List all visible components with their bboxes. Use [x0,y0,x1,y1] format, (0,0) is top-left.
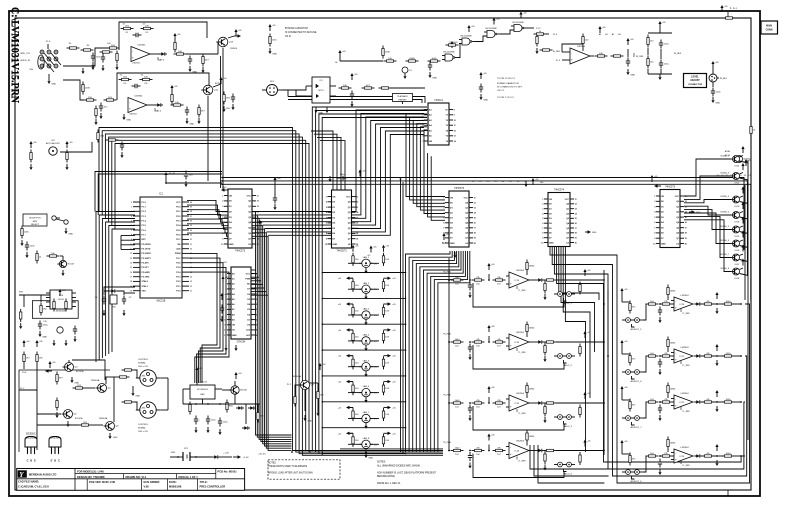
svg-text:-: - [132,49,133,53]
svg-text:CH1 = ON: CH1 = ON [138,366,148,368]
svg-text:+: + [129,106,131,110]
svg-text:6: 6 [326,223,327,225]
nand gate G1 [445,54,453,61]
svg-text:1: 1 [422,109,423,111]
svg-text:19: 19 [685,238,687,240]
svg-text:BC860_4: BC860_4 [721,212,730,214]
svg-text:TL_REF: TL_REF [518,413,526,415]
wire opto [282,86,306,90]
svg-text:DESIGN NO: TSM.M88: DESIGN NO: TSM.M88 [77,475,105,479]
svg-text:LM2904: LM2904 [681,447,690,449]
svg-text:16: 16 [256,284,258,286]
svg-text:6: 6 [222,222,223,224]
stage2 feedback loop [117,73,209,100]
driver cluster [36,251,38,254]
op-amp IC10a [131,47,150,62]
svg-text:9: 9 [654,238,655,240]
svg-text:3: 3 [422,120,423,122]
svg-text:IC 78L05: IC 78L05 [198,382,208,384]
svg-text:1000: 1000 [726,301,732,303]
svg-text:12: 12 [224,330,226,332]
svg-text:LED3: LED3 [735,206,740,208]
svg-text:16: 16 [356,223,358,225]
svg-text:12: 12 [575,204,577,206]
resistor R22 [140,79,143,81]
svg-text:6: 6 [654,222,655,224]
res R19 [95,106,97,109]
svg-text:-: - [510,275,511,279]
svg-text:7: 7 [225,304,226,306]
svg-text:GND: GND [189,123,194,125]
vcc bl1 [23,343,25,347]
svg-text:27: 27 [190,263,192,265]
svg-text:TL_REF: TL_REF [518,290,526,292]
svg-text:MC34064P: MC34064P [56,311,67,313]
wire bottom bus extra [340,448,443,450]
svg-text:1M00: 1M00 [529,328,535,330]
svg-text:11: 11 [257,195,259,197]
svg-text:TL_REF: TL_REF [682,465,690,467]
svg-text:100n: 100n [340,174,346,176]
wire reset [19,295,24,307]
cap reset [39,321,41,325]
midi select box [23,214,47,226]
svg-text:C:\CAD\LVM, CY:01..SCH: C:\CAD\LVM, CY:01..SCH [18,485,49,489]
svg-text:10K: 10K [385,259,389,261]
res reg2 [257,410,259,413]
svg-text:12: 12 [257,201,259,203]
svg-text:LM2904: LM2904 [129,114,137,116]
wire bus IC6 to drivers [684,159,731,196]
svg-text:PGM: PGM [245,278,250,280]
svg-text:M08/01/98: M08/01/98 [169,484,182,488]
vcc g0 [339,53,341,57]
wire bus IC3 top stubs [311,131,333,190]
gnd opto [315,107,317,110]
svg-text:19: 19 [257,238,259,240]
resistor R14 [100,51,103,53]
svg-text:LAB_8: LAB_8 [363,437,370,440]
driver transistor Q26 [733,254,740,261]
svg-text:1M00: 1M00 [670,443,676,445]
svg-text:B: B [30,460,32,463]
svg-text:GND: GND [318,112,323,114]
svg-text:BC860_7: BC860_7 [721,254,730,256]
wire oa2 out [147,104,156,106]
svg-text:4: 4 [131,216,132,218]
cap reg1 [195,416,197,420]
svg-text:10K: 10K [385,414,389,416]
wire col2 rail [603,270,605,455]
svg-text:11: 11 [685,196,687,198]
svg-text:1: 1 [326,196,327,198]
sel transistors [52,216,56,220]
svg-text:LED6: LED6 [735,250,740,252]
res reset [40,303,42,306]
svg-text:D0039 Rev 1, DEC 11: D0039 Rev 1, DEC 11 [377,482,401,485]
svg-text:+: + [510,343,512,347]
svg-text:TL_REF: TL_REF [518,352,526,354]
driver transistor Q20 [733,156,740,163]
svg-text:BC550C: BC550C [26,433,36,436]
pot row LAB_3 [350,303,354,305]
svg-text:6: 6 [131,225,132,227]
svg-text:+: + [510,452,512,456]
svg-text:6: 6 [443,223,444,225]
diode reg2 [248,407,250,409]
svg-text:6: 6 [422,136,423,138]
svg-text:10K: 10K [385,311,389,313]
svg-text:6: 6 [225,299,226,301]
svg-text:13: 13 [454,136,456,138]
svg-text:GN: GN [429,141,433,143]
svg-text:ADJ2_3: ADJ2_3 [564,425,573,428]
svg-text:7: 7 [131,230,132,232]
svg-text:24: 24 [190,277,192,279]
svg-text:17: 17 [256,289,258,291]
res bl4 [73,387,76,389]
svg-text:-: - [571,51,572,55]
svg-text:CONTROL: CONTROL [138,359,149,361]
svg-text:11: 11 [224,325,226,327]
svg-text:5: 5 [222,217,223,219]
wire bus hc14 to IC4 [406,114,445,197]
svg-text:-: - [675,451,676,455]
svg-text:13: 13 [575,209,577,211]
svg-text:IC23: IC23 [680,456,685,458]
svg-text:GND: GND [226,108,231,110]
resistor R16 [174,53,177,55]
svg-text:GND: GND [113,437,118,439]
svg-text:21: 21 [190,291,192,293]
latch IC3 74HC573 [332,190,352,248]
svg-text:36: 36 [190,221,192,223]
svg-text:15: 15 [130,267,132,269]
svg-text:PRESET: PRESET [398,99,407,101]
svg-text:IN_REF: IN_REF [553,51,561,53]
svg-text:1000: 1000 [726,453,732,455]
svg-text:SIGNAL: SIGNAL [138,361,146,364]
driver transistor Q23 [733,212,740,219]
wire sw to stage1 [63,48,110,66]
svg-text:1M00: 1M00 [529,436,535,438]
level adjust connector box [684,74,707,88]
svg-text:PRE1-CONTROLLER: PRE1-CONTROLLER [200,484,226,488]
diode reg3 [242,427,244,429]
pot row LAB_5 [350,355,354,357]
svg-text:18: 18 [130,281,132,283]
col2 op-amp row 2 [621,343,623,347]
svg-text:BYPASS CAPACITOR: BYPASS CAPACITOR [497,82,519,85]
svg-text:D2: D2 [726,175,728,177]
svg-text:TL_REF: TL_REF [518,461,526,463]
svg-text:100u: 100u [664,44,670,46]
svg-text:2: 2 [131,207,132,209]
svg-text:8: 8 [131,235,132,237]
svg-text:20: 20 [130,291,132,293]
resistor R12 [141,28,144,30]
svg-text:-: - [675,351,676,355]
vcc reg2 [235,375,237,379]
svg-text:A1: A1 [605,33,607,36]
svg-text:8: 8 [542,233,543,235]
svg-text:10K: 10K [385,285,389,287]
wire bus hc14 staircase [312,107,427,451]
svg-text:10K: 10K [175,102,179,104]
arrow IC2 LE [257,221,260,223]
wire bus MCU left loop [96,212,135,363]
xtal caps [103,296,105,300]
svg-text:GND: GND [630,74,635,76]
capacitor Ctr [627,58,629,62]
svg-text:-: - [129,100,130,104]
svg-text:P3.3/INT1: P3.3/INT1 [142,258,152,260]
svg-text:5: 5 [542,218,543,220]
svg-text:MC14093B: MC14093B [513,22,524,24]
svg-text:PCB VER: M10C-V.08: PCB VER: M10C-V.08 [89,480,116,484]
svg-text:IC13: IC13 [515,280,520,282]
transistor Q4 [98,384,107,393]
eprom IC7 27HC64 [231,267,251,339]
svg-text:12: 12 [356,202,358,204]
svg-text:-: - [510,337,511,341]
svg-text:1M00: 1M00 [670,291,676,293]
vcc G3 [493,21,495,25]
svg-text:1: 1 [131,202,132,204]
svg-text:20: 20 [575,242,577,244]
svg-text:17: 17 [130,277,132,279]
svg-text:ADJUST_7: ADJUST_7 [631,426,643,429]
svg-text:LM2904: LM2904 [132,63,140,65]
svg-text:13: 13 [685,206,687,208]
svg-text:3: 3 [225,284,226,286]
svg-text:GND: GND [74,382,79,384]
svg-text:NOTE2:: NOTE2: [268,462,277,464]
svg-text:23: 23 [256,319,258,321]
svg-text:+1.4V: +1.4V [243,457,249,459]
svg-text:1: 1 [654,196,655,198]
latch IC5 74HC574 [548,193,570,247]
diode reg1 [236,407,238,409]
vcc mic2 [66,144,68,148]
hex inverter IC9 74HC14 [428,103,449,145]
svg-text:VCC: VCC [247,195,252,197]
wire bus IC4 feed [400,179,402,452]
svg-text:35: 35 [190,225,192,227]
vcc opto [351,76,353,80]
svg-text:BYPASS CAPACITOR: BYPASS CAPACITOR [285,27,308,30]
svg-text:LM2904: LM2904 [516,332,525,334]
svg-text:8: 8 [326,233,327,235]
svg-text:100u: 100u [664,64,670,66]
gnd q5 [67,421,69,424]
svg-text:BC860_1: BC860_1 [721,156,730,158]
transistor Q3 [65,363,74,372]
svg-text:10: 10 [653,243,655,245]
svg-text:13: 13 [257,206,259,208]
wire oa1 out [150,53,160,55]
svg-text:TO PIN 7 OF IC1: TO PIN 7 OF IC1 [497,97,515,99]
svg-text:GND: GND [592,232,597,234]
svg-text:LAB_5: LAB_5 [363,359,370,362]
transistor Q1 [218,37,228,47]
resistor R2a [97,130,99,133]
svg-text:10K: 10K [385,388,389,390]
svg-text:15: 15 [685,217,687,219]
svg-text:1k00: 1k00 [455,339,461,341]
wire Q2 output drop [207,96,209,181]
svg-text:LM2904: LM2904 [681,295,690,297]
vcc oa2 [171,88,173,92]
svg-text:100K: 100K [385,52,391,54]
svg-text:VCC: VCC [464,197,469,199]
wire gates [458,44,460,58]
svg-text:XTAL1: XTAL1 [142,285,149,288]
col2 op-amp row 1 [621,291,623,295]
svg-text:B: B [54,460,56,463]
svg-text:22: 22 [190,286,192,288]
res bl7 [79,424,82,426]
title block [17,469,245,491]
rotary switch SW1 [40,50,44,54]
capacitor C21 [132,85,136,87]
svg-text:P3.1/TXD: P3.1/TXD [142,249,151,251]
svg-text:BC860_2: BC860_2 [721,173,730,175]
zone tick 1 top [727,11,729,18]
svg-text:40: 40 [190,202,192,204]
svg-text:LAB_6: LAB_6 [363,385,370,388]
svg-text:3: 3 [654,206,655,208]
svg-text:2: 2 [654,201,655,203]
MCU IC1 80C31 [140,197,182,298]
svg-text:GND: GND [135,395,140,397]
svg-text:LM2904: LM2904 [681,393,690,395]
svg-text:7: 7 [542,228,543,230]
gnd din [132,390,134,393]
svg-text:CH2 = ON: CH2 = ON [138,431,148,433]
svg-text:7: 7 [222,228,223,230]
svg-text:10K: 10K [599,53,603,55]
svg-text:LEVEL: LEVEL [691,76,699,79]
svg-text:9: 9 [542,238,543,240]
svg-text:CAD FILE NAME:: CAD FILE NAME: [18,479,39,483]
wire opto row bus [288,97,425,104]
wire fb [565,43,583,45]
svg-text:TL_REF: TL_REF [682,411,690,413]
resistor R23 [104,99,107,101]
svg-text:11: 11 [474,197,476,199]
wire right rails [747,160,749,440]
resistor R11 [121,28,124,30]
svg-text:LED1: LED1 [735,166,740,168]
svg-text:18: 18 [575,233,577,235]
res bl6 [56,398,58,401]
svg-text:2N3904A: 2N3904A [99,417,108,420]
svg-text:11: 11 [356,196,358,198]
svg-text:AUDIO_IN: AUDIO_IN [21,59,31,62]
resistor R28 [223,92,225,95]
svg-text:TN_PLA: TN_PLA [443,441,451,444]
svg-text:74HC14: 74HC14 [434,99,443,102]
capacitor C22 [100,103,102,107]
res din1 [122,369,125,371]
res bl2 [36,352,38,355]
gnd q3 [71,377,73,380]
svg-text:DC REGUL: DC REGUL [197,389,209,391]
svg-text:LM2904: LM2904 [516,441,525,443]
vcc IC3b [370,249,372,253]
svg-text:1k00: 1k00 [455,448,461,450]
svg-text:FOR MODEL(S): LV48: FOR MODEL(S): LV48 [77,469,104,473]
wire bus mid-left band [99,128,443,451]
capacitor Cg [429,62,431,66]
svg-text:38: 38 [190,211,192,213]
svg-text:19: 19 [575,238,577,240]
latch IC4 74HC574 [449,191,469,247]
svg-text:IS CONNECTED TO KEYLINE: IS CONNECTED TO KEYLINE [285,32,317,34]
wire bus IC5 staircase inner [559,246,599,300]
svg-text:7: 7 [443,228,444,230]
svg-text:GRID_TLR: GRID_TLR [20,53,30,55]
svg-text:74HC573: 74HC573 [454,187,465,190]
capacitor C13 [189,56,191,60]
svg-text:20: 20 [256,304,258,306]
svg-text:23: 23 [190,281,192,283]
svg-text:A7HB: A7HB [725,150,731,153]
svg-text:10: 10 [454,120,456,122]
svg-text:31: 31 [190,244,192,246]
svg-text:2N3906: 2N3906 [230,48,238,50]
svg-text:13: 13 [130,258,132,260]
svg-text:22K: 22K [144,77,148,79]
svg-text:100n: 100n [30,246,36,248]
svg-text:100n: 100n [272,40,278,42]
resistor Rg3 [406,60,409,62]
svg-text:MERIDIAN AUDIO LTD: MERIDIAN AUDIO LTD [29,473,57,477]
svg-text:PSEN: PSEN [175,253,181,255]
svg-text:BEFORE DRIVE: BEFORE DRIVE [377,475,395,478]
svg-text:18: 18 [356,233,358,235]
svg-text:VSS: VSS [142,291,147,293]
svg-text:28: 28 [190,258,192,260]
gnd IC4 [454,252,456,255]
svg-text:74HC573: 74HC573 [665,186,676,189]
vcc G1 [451,44,453,48]
svg-text:ADJ2_4: ADJ2_4 [564,472,573,475]
cap reg2 [207,416,209,420]
svg-text:MC14093B: MC14093B [486,28,497,30]
latch IC6 74HC574 [660,190,680,248]
svg-text:30: 30 [190,249,192,251]
svg-text:10: 10 [325,244,327,246]
wire s1 [166,182,222,184]
col2 op-amp row 4 [621,443,623,447]
svg-text:ALE: ALE [176,248,181,251]
svg-text:D0: D0 [717,175,719,177]
to92 2N3904 [49,437,61,448]
svg-text:100n: 100n [716,92,722,94]
svg-text:ADJUST_5: ADJUST_5 [631,328,643,331]
svg-text:P1.2: P1.2 [536,28,541,30]
svg-text:IC21: IC21 [680,356,685,358]
svg-text:12: 12 [130,253,132,255]
svg-text:SELECT: SELECT [31,224,40,226]
svg-text:1k00: 1k00 [455,277,461,279]
op-amp IC10b [128,98,147,113]
resistor R29 [82,82,84,85]
resistor Rg4 [428,60,431,62]
resistor R27 [198,105,200,108]
